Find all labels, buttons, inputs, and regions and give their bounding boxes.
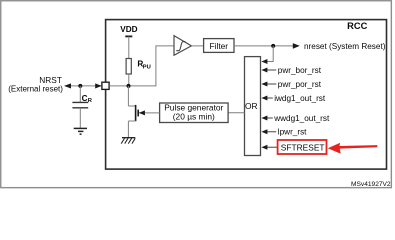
wire to schmitt input — [155, 45, 174, 47]
node C_R junction — [78, 84, 82, 88]
wire drain drop — [127, 86, 129, 106]
OR input iwdg1_out_rst — [266, 97, 273, 99]
wire junction to capacitor — [79, 86, 81, 102]
svg-text:VDD: VDD — [120, 25, 137, 34]
node nreset junction — [271, 44, 275, 48]
wire source to ground — [127, 121, 129, 138]
ground (transistor, hatched) — [121, 138, 135, 144]
svg-text:(External reset): (External reset) — [8, 84, 63, 93]
OR input pwr_bor_rst — [266, 69, 276, 71]
RCC block boundary — [106, 20, 387, 170]
svg-text:RCC: RCC — [347, 21, 367, 31]
OR input pwr_por_rst — [266, 83, 276, 85]
wire nreset feedback to OR — [266, 46, 273, 62]
svg-text:MSv41927V2: MSv41927V2 — [351, 181, 391, 188]
arrowhead into OR (nreset) — [261, 59, 267, 64]
wire filter to nreset — [234, 45, 293, 47]
wire VDD to R_PU — [128, 36, 130, 58]
svg-text:SFTRESET: SFTRESET — [281, 142, 325, 152]
svg-text:pwr_bor_rst: pwr_bor_rst — [278, 66, 322, 75]
svg-text:lpwr_rst: lpwr_rst — [278, 128, 307, 137]
arrowhead into pad (right) — [95, 83, 102, 88]
wire schmitt to filter — [191, 45, 203, 47]
capacitor C_R — [72, 101, 88, 103]
resistor R_PU — [126, 59, 131, 75]
svg-text:iwdg1_out_rst: iwdg1_out_rst — [274, 94, 326, 103]
svg-text:C: C — [82, 94, 88, 103]
arrowhead nreset — [293, 43, 300, 49]
svg-text:OR: OR — [245, 101, 258, 111]
svg-text:(20 µs min): (20 µs min) — [173, 112, 215, 122]
op-amp U1 (Schmitt trigger buffer) — [174, 36, 191, 56]
wire R_PU to NRST net — [128, 74, 130, 86]
svg-text:Filter: Filter — [209, 41, 228, 51]
filter block — [204, 39, 234, 53]
wire riser up — [155, 46, 157, 87]
SFTRESET highlight box — [278, 140, 327, 154]
arrowhead into gate — [139, 110, 145, 115]
svg-text:pwr_por_rst: pwr_por_rst — [278, 80, 322, 89]
svg-text:wwdg1_out_rst: wwdg1_out_rst — [273, 114, 330, 123]
svg-text:PU: PU — [143, 64, 151, 70]
VDD supply bar — [125, 35, 132, 37]
ground (capacitor) — [74, 128, 87, 134]
NRST pad — [102, 82, 109, 89]
wire capacitor to ground — [79, 108, 81, 128]
wire pulse generator to gate — [139, 112, 160, 114]
OR input SFTRESET — [266, 146, 278, 148]
hysteresis symbol — [176, 42, 185, 51]
pulse generator block — [160, 103, 229, 123]
red annotation arrow — [328, 143, 378, 154]
node R_PU / drain junction — [127, 84, 131, 88]
transistor Q1 (NMOS pulldown) — [128, 105, 138, 121]
OR input wwdg1_out_rst — [266, 117, 273, 119]
OR gate — [245, 57, 261, 156]
svg-text:nreset (System Reset): nreset (System Reset) — [304, 42, 386, 51]
arrowhead out (left) — [64, 83, 71, 88]
figure frame — [1, 1, 392, 188]
OR input lpwr_rst — [266, 131, 276, 133]
wire NRST external segment — [66, 85, 102, 87]
wire pad to riser — [109, 85, 156, 87]
wire OR output to pulse generator — [228, 112, 244, 114]
